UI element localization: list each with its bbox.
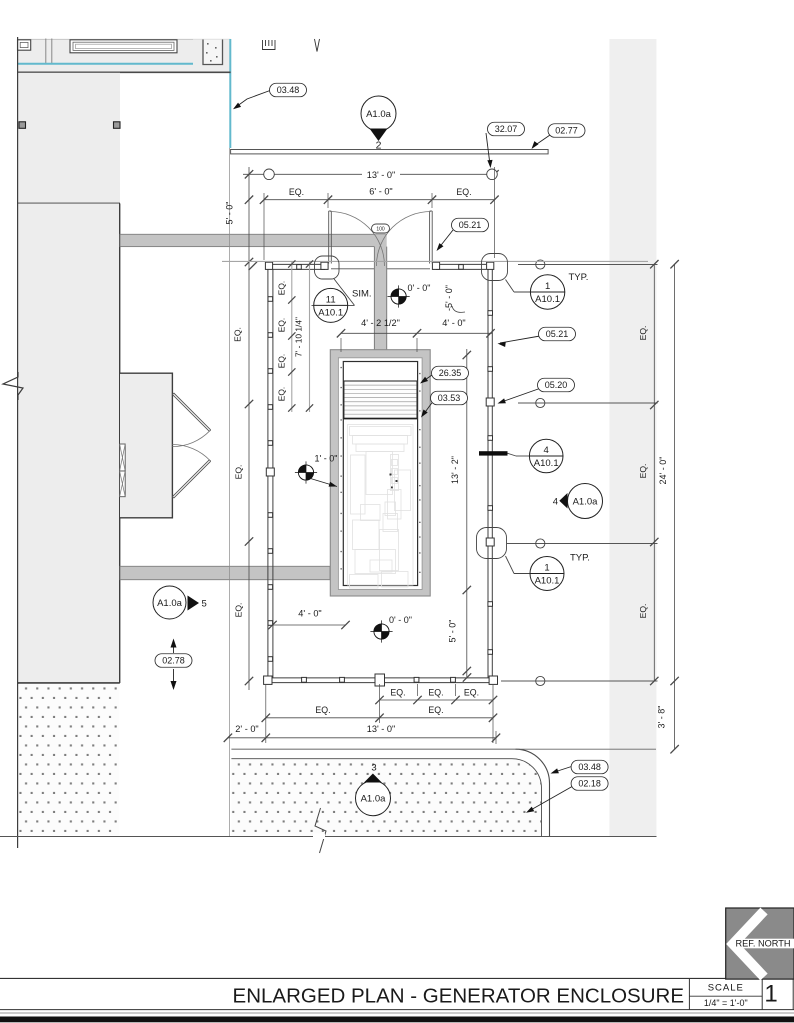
tick (288, 332, 295, 339)
interior dim line right (466, 349, 468, 677)
callout 05.20 (538, 378, 575, 392)
walkway horizontal (120, 234, 386, 246)
svg-text:REF. NORTH: REF. NORTH (736, 938, 791, 948)
svg-text:5: 5 (202, 599, 207, 610)
gate leaf west (328, 211, 330, 264)
tick (413, 329, 421, 337)
title bar top line (0, 977, 794, 979)
dim extension (492, 684, 494, 743)
callout 05.21b (539, 327, 576, 341)
break line marker on wall (3, 372, 23, 400)
svg-text:3: 3 (371, 763, 376, 774)
pad concrete wall (330, 350, 430, 596)
svg-text:0' - 0": 0' - 0" (408, 283, 431, 293)
svg-text:EQ.: EQ. (234, 603, 244, 618)
callout 03.48b (571, 760, 608, 774)
svg-text:1: 1 (764, 981, 777, 1008)
bollard circle west (264, 169, 275, 180)
walkway vertical leg (374, 234, 386, 354)
leader 32.07 (486, 133, 490, 165)
tick (245, 400, 253, 408)
tick (463, 667, 471, 675)
svg-text:A10.1: A10.1 (534, 458, 559, 469)
radiator hatch bottom bar (344, 418, 417, 420)
svg-text:02.18: 02.18 (578, 779, 601, 789)
svg-text:EQ.: EQ. (428, 688, 443, 698)
fence post top mid (297, 265, 302, 270)
detail marker 4/A10.1 (529, 439, 563, 473)
dim extension jamb west (327, 193, 329, 208)
svg-text:A10.1: A10.1 (318, 308, 343, 319)
interior dim line EQ4 (291, 261, 293, 412)
alcove fill (120, 373, 172, 518)
dim extension fence NW (263, 193, 265, 260)
curb outer straight (231, 748, 515, 750)
svg-text:EQ.: EQ. (428, 705, 443, 715)
plumbing symbol glyph (263, 40, 276, 50)
detail marker 1/A10.1 right (530, 557, 564, 591)
skylight fixture left (18, 40, 31, 50)
curb outer line (516, 749, 550, 836)
svg-text:4' - 2 1/2": 4' - 2 1/2" (361, 318, 400, 328)
fence corner post NE (487, 262, 494, 269)
reference circle (536, 676, 545, 685)
svg-text:EQ.: EQ. (638, 604, 648, 619)
alcove outline (120, 373, 172, 518)
dim extension (416, 338, 418, 352)
fence posts east (488, 311, 493, 316)
tick (463, 351, 471, 359)
sheet num box right (792, 978, 794, 1009)
svg-text:13' - 2": 13' - 2" (450, 456, 460, 484)
tick (324, 196, 332, 204)
pad inner curb line (343, 362, 417, 586)
room divider line (18, 203, 121, 205)
right dim line 24ft (674, 264, 676, 749)
svg-text:EQ.: EQ. (233, 327, 243, 342)
tick (486, 329, 494, 337)
svg-text:EQ.: EQ. (638, 464, 648, 479)
equipment pad panel solid (479, 451, 508, 455)
svg-text:2: 2 (376, 140, 382, 152)
svg-text:100: 100 (376, 227, 385, 233)
svg-text:EQ.: EQ. (277, 387, 287, 401)
tick (245, 196, 253, 204)
svg-text:EQ.: EQ. (277, 318, 287, 332)
ref north box (726, 908, 794, 979)
tick (262, 734, 270, 742)
tick (337, 329, 345, 337)
scale box divider right (761, 978, 763, 1009)
gate jamb post west (321, 262, 328, 269)
tick (670, 260, 678, 268)
section marker A1.0a left (153, 586, 186, 619)
dim extension (265, 684, 267, 743)
svg-text:EQ.: EQ. (456, 187, 471, 197)
section marker A1.0a right (568, 484, 603, 519)
label 13-0 (362, 168, 400, 180)
spot elevation 0-0 top (391, 289, 406, 304)
door leaf upper (172, 393, 210, 431)
tick (245, 258, 253, 266)
tick (670, 677, 678, 685)
callout 26.35 (432, 366, 469, 380)
svg-text:5' - 0": 5' - 0" (448, 620, 458, 643)
tick (489, 696, 497, 704)
interior dim line mid (341, 332, 492, 334)
door tag 100 (372, 224, 390, 233)
leader (508, 453, 517, 456)
gate post south (375, 674, 385, 686)
svg-text:A10.1: A10.1 (535, 576, 560, 587)
gray top extension line (222, 260, 648, 262)
svg-text:1: 1 (545, 281, 550, 292)
gate swing west (330, 212, 385, 267)
scale box divider mid (689, 995, 762, 997)
tick (492, 734, 500, 742)
dim extension fence NE (494, 167, 496, 258)
anchor bolts (341, 367, 342, 368)
tick (650, 677, 658, 685)
svg-text:A1.0a: A1.0a (573, 496, 599, 507)
column marker left (19, 122, 26, 129)
leader 03.48b (553, 766, 573, 773)
callout 32.07 (488, 122, 525, 136)
tick (670, 745, 678, 753)
svg-text:1/4" = 1'-0": 1/4" = 1'-0" (704, 998, 748, 1008)
tick (288, 404, 295, 411)
svg-text:03.48: 03.48 (578, 762, 601, 772)
building right wall (119, 204, 121, 684)
title bar heavy bar (0, 1017, 794, 1023)
tick (224, 734, 232, 742)
detail marker 1/A10.1 top (530, 275, 564, 309)
dim extension (379, 684, 381, 723)
tick (268, 621, 276, 629)
dim extension jamb east (431, 193, 433, 208)
svg-text:EQ.: EQ. (390, 688, 405, 698)
leader 26.35 (422, 375, 432, 382)
bottom dim line EQx3 (380, 699, 494, 701)
door leaf lower (172, 460, 210, 498)
door panel lower with X (120, 471, 126, 497)
leader (311, 479, 338, 487)
dim extension (340, 338, 342, 352)
svg-text:0' - 0": 0' - 0" (389, 615, 412, 625)
fence corner post SE (489, 676, 497, 684)
reference line right (507, 543, 658, 545)
section marker A1.0a bottom (356, 781, 391, 816)
svg-text:32.07: 32.07 (495, 124, 518, 134)
tick (306, 260, 313, 267)
svg-text:05.21: 05.21 (459, 220, 482, 230)
canopy edge line (231, 150, 548, 154)
sidewalk break line (315, 808, 326, 853)
fence bottom rail (268, 677, 493, 679)
svg-text:02.77: 02.77 (555, 126, 578, 136)
svg-text:A1.0a: A1.0a (157, 598, 183, 609)
building top strip fill (18, 39, 231, 72)
svg-text:ENLARGED PLAN - GENERATOR ENCL: ENLARGED PLAN - GENERATOR ENCLOSURE (233, 985, 684, 1008)
skylight fixture long (70, 40, 177, 53)
leader 05.21b (500, 336, 540, 343)
building edge below top strip (18, 71, 231, 73)
tick (375, 714, 383, 722)
cyan finish line horizontal (18, 63, 194, 65)
svg-text:EQ.: EQ. (234, 465, 244, 480)
tick (341, 621, 349, 629)
svg-text:4' - 0": 4' - 0" (298, 609, 321, 619)
right dim line EQ (653, 264, 655, 681)
concrete column with anchor dots (193, 39, 231, 72)
walkway stub to pad (120, 566, 330, 579)
fence west rail (267, 269, 269, 678)
detail callout square NE (482, 254, 508, 281)
equipment specks (390, 474, 392, 476)
spot elevation 1-0 left (298, 465, 313, 480)
fence top rail east segment (436, 263, 486, 265)
svg-text:02.78: 02.78 (162, 656, 185, 666)
tick (288, 260, 295, 267)
leader 05.21 (438, 230, 453, 249)
tick (428, 196, 436, 204)
interior dim line 4-0 (273, 624, 346, 626)
svg-text:4: 4 (553, 496, 558, 507)
dim extension x231 (229, 148, 231, 836)
spot elevation 0-0 bottom (374, 624, 389, 639)
planting bed left (19, 684, 120, 836)
building bottom wall (18, 682, 120, 684)
sidewalk stipple bottom (231, 759, 541, 836)
upper room fill (18, 73, 120, 204)
tick (463, 586, 471, 594)
svg-text:EQ.: EQ. (315, 705, 330, 715)
gate leaf east (429, 211, 431, 264)
tick (262, 714, 270, 722)
callout 05.21 (452, 218, 489, 232)
section marker A1.0a top (361, 96, 396, 131)
svg-text:A1.0a: A1.0a (366, 109, 392, 120)
tick (490, 170, 498, 178)
svg-text:4' - 0": 4' - 0" (442, 318, 465, 328)
walkway leg edges (373, 247, 375, 352)
svg-text:A10.1: A10.1 (535, 294, 560, 305)
tick (288, 368, 295, 375)
generator equipment outline (348, 425, 414, 586)
svg-text:13' - 0": 13' - 0" (367, 724, 396, 734)
radiator hatch box (344, 381, 417, 418)
fence top rail west segment (273, 263, 326, 265)
gate jamb post east (432, 262, 439, 269)
tick on fence (463, 673, 471, 681)
fence post top east-mid (459, 265, 464, 270)
scale box divider left (688, 978, 690, 1009)
svg-text:5' - 0": 5' - 0" (225, 202, 235, 225)
detail callout square NW gate (315, 256, 340, 279)
svg-text:EQ.: EQ. (289, 187, 304, 197)
fence posts west (268, 297, 273, 302)
svg-text:05.20: 05.20 (545, 380, 568, 390)
title bar bottom line (0, 1009, 794, 1011)
fence posts south (302, 677, 307, 682)
tick (245, 537, 253, 545)
bottom ground line (0, 836, 657, 838)
tick (375, 696, 383, 704)
svg-text:TYP.: TYP. (570, 553, 590, 564)
tick (650, 401, 658, 409)
ref north arrow (733, 911, 764, 977)
reference line right (518, 264, 658, 266)
detail flag lines (334, 279, 355, 306)
interior partition double line (45, 39, 47, 64)
leader 02.77 (534, 135, 550, 146)
reference circle (536, 539, 545, 548)
svg-text:13' - 0": 13' - 0" (367, 170, 396, 180)
building mass fill (18, 204, 120, 684)
door panel upper with X (120, 444, 126, 471)
svg-text:24' - 0": 24' - 0" (658, 457, 668, 485)
tick (288, 296, 295, 303)
top dim line 13ft (243, 173, 495, 175)
bottom dim line EQx2 (266, 717, 493, 719)
detail callout square E (477, 528, 507, 559)
reference circle (536, 260, 545, 269)
leader 02.18 (529, 786, 573, 811)
dim extension (417, 684, 419, 696)
building top strip top edge (18, 38, 231, 40)
curb line extension (516, 748, 656, 750)
tick (490, 196, 498, 204)
leader 03.48 (235, 91, 271, 109)
svg-text:1' - 0": 1' - 0" (315, 454, 338, 464)
svg-text:EQ.: EQ. (277, 354, 287, 368)
svg-text:03.53: 03.53 (438, 393, 461, 403)
svg-text:6' - 0": 6' - 0" (369, 186, 392, 196)
svg-text:26.35: 26.35 (439, 368, 462, 378)
door swing lower (172, 445, 210, 461)
door swing upper (172, 431, 210, 447)
fence east rail (487, 269, 489, 678)
interior dim line 7-10 (309, 261, 311, 412)
cyan wall line vertical (229, 39, 231, 148)
valve symbol glyph (315, 39, 320, 52)
tick (489, 714, 497, 722)
note arc (452, 306, 465, 312)
curb inner line (231, 759, 541, 836)
leader (506, 280, 515, 293)
walkway gate threshold line (331, 268, 430, 270)
detail marker 11/A10.1 (314, 288, 348, 322)
callout 02.18 (571, 777, 608, 791)
leader 05.20 (500, 388, 541, 403)
bollard circle east (487, 169, 498, 180)
column marker right (114, 122, 121, 129)
svg-text:EQ.: EQ. (277, 281, 287, 295)
callout 03.53 (431, 391, 468, 405)
reference line right (501, 680, 658, 682)
svg-text:A1.0a: A1.0a (361, 794, 387, 805)
dim extension top left (248, 167, 250, 690)
dim extension (495, 731, 497, 744)
svg-text:SCALE: SCALE (708, 983, 744, 994)
dim extension (455, 684, 457, 696)
tick (451, 696, 459, 704)
svg-text:EQ.: EQ. (638, 326, 648, 341)
svg-text:EQ.: EQ. (464, 688, 479, 698)
svg-text:03.48: 03.48 (277, 85, 300, 95)
reference line right (518, 402, 658, 404)
svg-text:11: 11 (326, 295, 336, 306)
sidewalk band right (609, 39, 656, 836)
fence corner post SW (264, 676, 272, 684)
ref north text strip (741, 939, 794, 949)
tick (260, 196, 268, 204)
bottom dim line 13ft (228, 737, 496, 739)
leader 03.53 (423, 400, 434, 415)
fence corner post NW (265, 262, 272, 269)
svg-text:4: 4 (544, 445, 549, 456)
tick (245, 170, 253, 178)
radiator hatch lines (345, 384, 417, 386)
tick (245, 677, 253, 685)
svg-text:1: 1 (544, 563, 549, 574)
svg-text:7' - 10 1/4": 7' - 10 1/4" (294, 317, 304, 357)
callout 03.48 (270, 83, 307, 97)
svg-text:2' - 0": 2' - 0" (235, 724, 258, 734)
svg-text:3' - 8": 3' - 8" (657, 706, 667, 729)
svg-text:SIM.: SIM. (352, 289, 372, 300)
callout 02.77 (548, 124, 585, 138)
callout 02.78 with arrows (155, 654, 192, 668)
tick (650, 538, 658, 546)
reference circle (536, 398, 545, 407)
gate swing east (376, 212, 431, 267)
top dim line eq-6-eq (264, 199, 495, 201)
svg-text:05.21: 05.21 (546, 329, 569, 339)
leader (506, 556, 515, 574)
tick (306, 404, 313, 411)
building left wall (17, 37, 19, 848)
tick (413, 696, 421, 704)
tick (650, 260, 658, 268)
title bar second line (0, 1012, 794, 1014)
svg-text:TYP.: TYP. (569, 272, 589, 283)
pad wall inner boundary (338, 358, 422, 590)
